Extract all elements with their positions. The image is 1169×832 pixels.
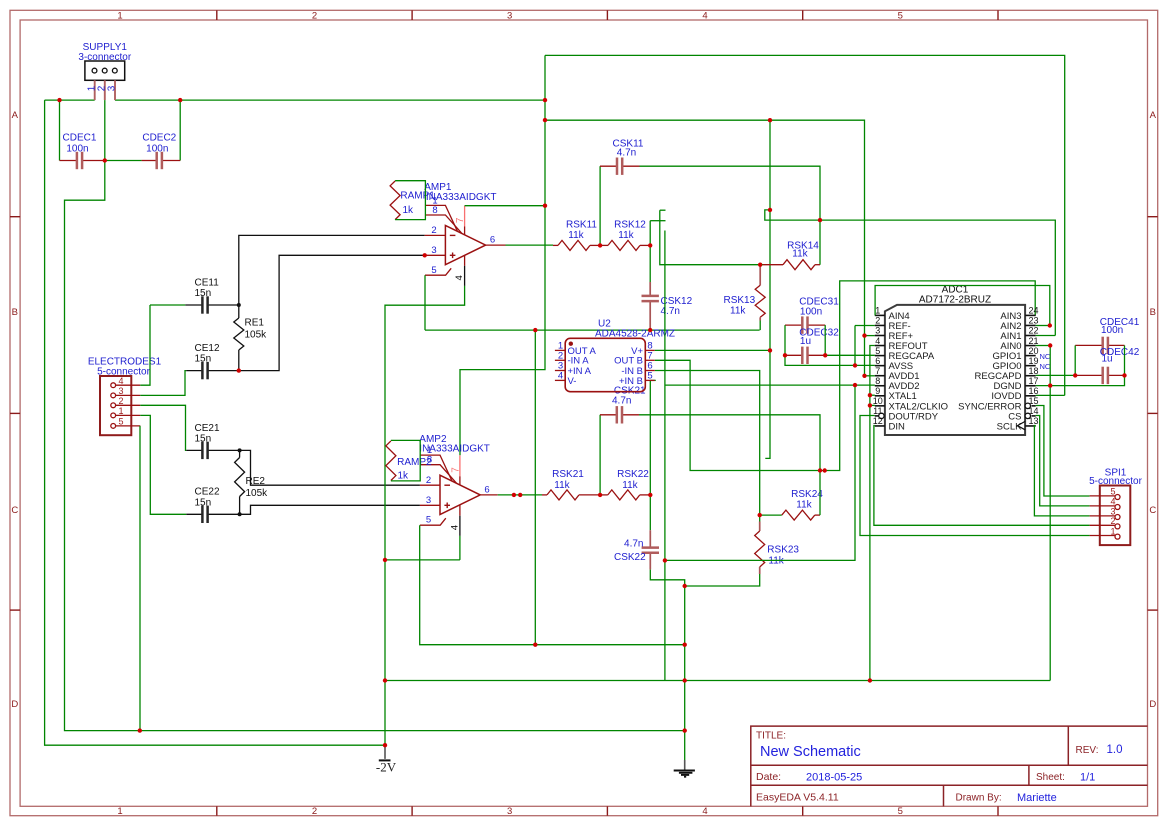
wire RAMP1 loop bbox=[395, 181, 425, 220]
wire AVDD2 col to y560 bbox=[665, 385, 855, 560]
-2V power symbol bbox=[379, 746, 391, 761]
svg-text:2: 2 bbox=[1111, 516, 1116, 526]
svg-text:2018-05-25: 2018-05-25 bbox=[806, 771, 862, 783]
svg-text:4: 4 bbox=[702, 10, 707, 21]
wire CDEC4x right rail bbox=[1124, 345, 1126, 375]
svg-text:Date:: Date: bbox=[756, 771, 781, 783]
ADC1 pin 3 REF+ bbox=[875, 335, 885, 337]
svg-text:B: B bbox=[1150, 307, 1156, 318]
wire AIN2 stub bbox=[1036, 325, 1050, 327]
svg-text:CSK22: CSK22 bbox=[614, 552, 646, 563]
svg-text:EasyEDA V5.4.11: EasyEDA V5.4.11 bbox=[756, 792, 839, 804]
ADC1 pin 13 SCLK bbox=[1025, 425, 1036, 427]
svg-text:7: 7 bbox=[455, 217, 466, 223]
svg-text:17: 17 bbox=[1028, 376, 1038, 386]
wire XTAL2 stub bbox=[870, 404, 875, 406]
capacitor CDEC32 bbox=[785, 354, 802, 356]
wire RAMP2 loop bbox=[391, 440, 420, 481]
wire REGCAPD row bbox=[1036, 374, 1076, 376]
junction CE12/RE1 red bbox=[237, 368, 241, 372]
svg-text:A: A bbox=[1150, 110, 1157, 121]
junction REGCAPD/cap rail bbox=[1073, 373, 1077, 377]
IC ADC1 AD7172-2BRUZ body bbox=[885, 305, 1025, 435]
resistor RSK12 bbox=[600, 244, 608, 246]
svg-text:5-connector: 5-connector bbox=[1089, 476, 1142, 487]
resistor RSK11 bbox=[553, 244, 558, 246]
svg-text:4.7n: 4.7n bbox=[624, 538, 643, 549]
wire U2 pin5 stub bbox=[650, 379, 655, 381]
svg-text:9: 9 bbox=[875, 386, 880, 396]
ground symbol bbox=[674, 760, 695, 777]
junction feedback b bbox=[823, 468, 827, 472]
wire CDEC2 right drop bbox=[179, 100, 181, 160]
svg-text:D: D bbox=[1149, 699, 1156, 710]
svg-text:RSK21: RSK21 bbox=[552, 469, 584, 480]
junction XTAL2 bbox=[868, 403, 872, 407]
svg-text:5: 5 bbox=[431, 265, 436, 276]
resistor RE1 bbox=[238, 305, 240, 318]
svg-text:11k: 11k bbox=[622, 480, 638, 491]
svg-text:RAMP1: RAMP1 bbox=[400, 191, 435, 202]
svg-text:Drawn By:: Drawn By: bbox=[956, 793, 1002, 804]
ADC1 pin 19 GPIO0 bbox=[1025, 365, 1036, 367]
wire AMP1 REF down bbox=[424, 275, 426, 330]
svg-text:11: 11 bbox=[873, 406, 882, 416]
svg-text:23: 23 bbox=[1028, 316, 1038, 326]
wire REF row y330 bbox=[425, 329, 760, 331]
svg-text:RSK13: RSK13 bbox=[724, 295, 756, 306]
junction electrodes pin5 rail/gnd row bbox=[138, 728, 142, 732]
svg-text:NC: NC bbox=[1040, 362, 1051, 371]
wire AIN1 stub bbox=[1036, 335, 1056, 337]
svg-text:ADA4528-2ARMZ: ADA4528-2ARMZ bbox=[595, 328, 675, 339]
wire +supply y100 b bbox=[115, 99, 545, 101]
capacitor CDEC31 bbox=[785, 324, 802, 326]
wire pin5 rail bbox=[139, 426, 141, 731]
ADC1 pin 17 DGND bbox=[1025, 385, 1036, 387]
wire AIN4-AIN2 bbox=[875, 286, 1050, 326]
resistor RE2 bbox=[239, 450, 241, 457]
svg-text:V-: V- bbox=[568, 376, 577, 387]
svg-text:CDEC2: CDEC2 bbox=[142, 132, 176, 143]
wire CDEC4x left rail bbox=[1074, 345, 1076, 375]
capacitor CE21 bbox=[186, 449, 202, 451]
capacitor CDEC1 bbox=[60, 160, 77, 162]
wire DIN to SPI2 bbox=[874, 426, 1090, 526]
ADC1 pin 18 REGCAPD bbox=[1025, 375, 1036, 377]
svg-text:CE12: CE12 bbox=[195, 343, 220, 354]
svg-text:4.7n: 4.7n bbox=[612, 396, 631, 407]
svg-text:CDEC1: CDEC1 bbox=[63, 132, 97, 143]
svg-text:15n: 15n bbox=[195, 288, 212, 299]
svg-text:D: D bbox=[11, 699, 18, 710]
svg-text:11k: 11k bbox=[730, 305, 746, 316]
SPI1 pin 3 bbox=[1090, 515, 1115, 517]
ADC1 pin 14 CS bbox=[1032, 415, 1036, 417]
svg-text:SCLK: SCLK bbox=[997, 421, 1022, 432]
wire AMP2 REF to gnd row bbox=[420, 525, 685, 645]
svg-text:5: 5 bbox=[647, 370, 652, 381]
svg-text:100n: 100n bbox=[66, 143, 88, 154]
junction AIN2 bbox=[1048, 323, 1052, 327]
SPI1 pin 5 bbox=[1090, 495, 1115, 497]
svg-text:1.0: 1.0 bbox=[1107, 744, 1123, 756]
svg-text:15n: 15n bbox=[195, 354, 212, 365]
svg-text:NC: NC bbox=[1040, 352, 1051, 361]
wire REF- row bbox=[855, 325, 875, 327]
wire y586 to RSK23 bbox=[685, 574, 760, 586]
svg-text:11k: 11k bbox=[796, 500, 812, 511]
svg-text:-2V: -2V bbox=[376, 760, 397, 775]
wire AMP2 out bbox=[498, 494, 542, 496]
wire AVDD1 stub bbox=[865, 375, 875, 377]
capacitor CDEC41 bbox=[1075, 344, 1103, 346]
svg-text:10: 10 bbox=[873, 396, 883, 406]
svg-text:3: 3 bbox=[507, 10, 512, 21]
junction y645/gnd column bbox=[683, 643, 687, 647]
wire AVSS stub bbox=[855, 364, 875, 366]
svg-text:3: 3 bbox=[431, 245, 436, 256]
svg-text:18: 18 bbox=[1028, 366, 1038, 376]
op-amp AMP2 INA333AIDGKT bbox=[420, 455, 498, 536]
wire CDEC3x left rail to AVSS bbox=[785, 325, 855, 365]
junction CDEC1/CDEC2/gnd drop bbox=[103, 158, 107, 162]
connector SPI1 bbox=[1100, 486, 1131, 546]
svg-text:C: C bbox=[11, 505, 18, 516]
junction XTAL1 bbox=[868, 393, 872, 397]
resistor RSK22 bbox=[600, 494, 608, 496]
svg-text:New Schematic: New Schematic bbox=[760, 744, 861, 760]
wire gnd rail left bbox=[65, 161, 685, 731]
svg-text:2: 2 bbox=[431, 225, 436, 236]
svg-text:100n: 100n bbox=[1101, 325, 1123, 336]
wire CS to SPI4 bbox=[1036, 416, 1090, 506]
wire RSK14 left green bbox=[760, 264, 763, 266]
svg-text:21: 21 bbox=[1028, 336, 1038, 346]
wire REGCAPA row bbox=[825, 354, 875, 356]
svg-text:1/1: 1/1 bbox=[1080, 771, 1095, 783]
svg-text:1u: 1u bbox=[800, 336, 811, 347]
svg-text:15: 15 bbox=[1028, 396, 1038, 406]
svg-text:7: 7 bbox=[450, 467, 461, 473]
wire CSK12 top green bbox=[649, 245, 651, 282]
wire RSK23 top green bbox=[759, 515, 761, 521]
svg-text:6: 6 bbox=[484, 485, 489, 496]
wire gnd column bbox=[684, 586, 686, 760]
svg-text:4: 4 bbox=[558, 370, 563, 381]
junction y220/CSK11 col bbox=[818, 218, 822, 222]
svg-text:5: 5 bbox=[426, 515, 431, 526]
junction y560/lineC bbox=[663, 558, 667, 562]
ADC1 pin 21 AIN0 bbox=[1025, 345, 1036, 347]
wire DOUT to SPI1 bbox=[860, 416, 1090, 536]
ADC1 pin 7 AVDD1 bbox=[875, 375, 885, 377]
wire U2 V+ row bbox=[655, 349, 770, 351]
svg-text:3: 3 bbox=[107, 85, 118, 91]
svg-text:1: 1 bbox=[117, 10, 122, 21]
junction y645/x535 bbox=[533, 643, 537, 647]
capacitor CSK11 bbox=[600, 165, 617, 167]
svg-text:8: 8 bbox=[432, 205, 437, 216]
svg-text:2: 2 bbox=[312, 10, 317, 21]
svg-text:1k: 1k bbox=[398, 470, 410, 481]
wire CE11 node to AMP1 pin2 bbox=[239, 235, 425, 305]
wire AVDD2 row bbox=[665, 384, 875, 386]
junction RSK21/RSK22/CSK21 bbox=[598, 493, 602, 497]
svg-text:Mariette: Mariette bbox=[1017, 792, 1057, 804]
junction CE22/RE2 black bbox=[238, 512, 242, 516]
border column ticks bbox=[216, 10, 218, 20]
svg-text:14: 14 bbox=[1028, 406, 1038, 416]
ADC1 pin 10 XTAL2/CLKIO bbox=[875, 405, 885, 407]
svg-text:105k: 105k bbox=[246, 488, 269, 499]
svg-text:4: 4 bbox=[1111, 497, 1116, 507]
svg-text:16: 16 bbox=[1028, 386, 1038, 396]
wire AIN0 col down bbox=[1049, 346, 1051, 681]
wire CE12 node to AMP1 pin3 bbox=[239, 255, 425, 370]
ADC1 pin 24 AIN3 bbox=[1025, 314, 1036, 316]
junction AMP1 V+ on rail bbox=[543, 204, 547, 208]
wire REF- to AVSS rail bbox=[854, 326, 856, 366]
wire REF+/AVDD1 col bbox=[864, 336, 866, 376]
junction -2V rail end bbox=[383, 743, 387, 747]
junction CDEC32 left bbox=[783, 353, 787, 357]
svg-text:RE1: RE1 bbox=[245, 318, 265, 329]
svg-text:3: 3 bbox=[119, 386, 124, 396]
wire AMP2 V- drop bbox=[459, 536, 461, 560]
svg-text:RSK24: RSK24 bbox=[791, 489, 823, 500]
junction RSK23/RSK24/-INB bbox=[758, 513, 762, 517]
junction AMP2 out a bbox=[512, 493, 516, 497]
junction AVDD1 bbox=[862, 374, 866, 378]
wire XTAL1 stub bbox=[870, 394, 875, 396]
svg-text:DIN: DIN bbox=[889, 421, 906, 432]
capacitor CSK21 bbox=[600, 414, 617, 416]
svg-text:REV:: REV: bbox=[1076, 745, 1099, 756]
wire pin1 down bbox=[140, 415, 186, 514]
ADC1 pin 2 REF- bbox=[875, 324, 885, 326]
wire -2V left rail bbox=[45, 100, 385, 745]
wire CSK11 right down bbox=[640, 166, 821, 265]
connector ELECTRODES1 bbox=[100, 376, 131, 435]
svg-text:RSK23: RSK23 bbox=[767, 545, 799, 556]
svg-text:CE22: CE22 bbox=[195, 487, 220, 498]
junction x770/U2 V+ row bbox=[768, 348, 772, 352]
wire pin4 up bbox=[140, 305, 150, 385]
wire CE21 node to AMP2 pin2 bbox=[240, 450, 420, 485]
wire CDEC3x right rail bbox=[824, 325, 826, 355]
wire RSK13 bottom green bbox=[759, 321, 761, 331]
svg-text:100n: 100n bbox=[800, 306, 822, 317]
junction RSK12/CSK12 bbox=[648, 243, 652, 247]
ADC1 pin 22 AIN1 bbox=[1025, 335, 1036, 337]
capacitor CE22 bbox=[186, 513, 202, 515]
wire -INB from U2 pin6 bbox=[655, 371, 760, 516]
ADC1 pin 6 AVSS bbox=[875, 365, 885, 367]
svg-text:5: 5 bbox=[898, 806, 903, 817]
resistor RAMP2 bbox=[386, 441, 396, 481]
junction REF+ bbox=[862, 333, 866, 337]
svg-text:3: 3 bbox=[507, 806, 512, 817]
svg-text:4: 4 bbox=[875, 336, 880, 346]
svg-text:3-connector: 3-connector bbox=[78, 52, 131, 63]
svg-text:2: 2 bbox=[875, 316, 880, 326]
junction V+/y120 wire bbox=[543, 118, 547, 122]
ADC1 SCLK clock mark bbox=[1018, 421, 1026, 429]
svg-text:3: 3 bbox=[875, 326, 880, 336]
svg-text:5: 5 bbox=[119, 417, 124, 427]
svg-text:7: 7 bbox=[875, 366, 880, 376]
svg-text:4: 4 bbox=[702, 806, 707, 817]
wire x535 down bbox=[534, 330, 536, 645]
svg-text:3: 3 bbox=[426, 495, 431, 506]
wire cap mid bbox=[105, 160, 142, 162]
wire pin3 up bbox=[140, 371, 186, 396]
wire AMP1 out to RSK11 bbox=[506, 244, 554, 246]
svg-text:2: 2 bbox=[426, 475, 431, 486]
junction RSK22/CSK22/+INB bbox=[648, 493, 652, 497]
wire supply pin2 drop bbox=[104, 100, 106, 160]
svg-text:RSK11: RSK11 bbox=[566, 220, 597, 231]
capacitor CE11 bbox=[185, 304, 202, 306]
junction feedback a bbox=[818, 468, 822, 472]
junction gnd/y730 bbox=[683, 728, 687, 732]
svg-text:RSK22: RSK22 bbox=[617, 469, 649, 480]
svg-text:4.7n: 4.7n bbox=[661, 306, 680, 317]
svg-text:AD7172-2BRUZ: AD7172-2BRUZ bbox=[919, 295, 991, 306]
svg-text:11k: 11k bbox=[554, 480, 570, 491]
svg-text:12: 12 bbox=[873, 416, 883, 426]
wire line C x665 bbox=[664, 231, 666, 681]
svg-text:C: C bbox=[1149, 505, 1156, 516]
junction CDEC32 right bbox=[823, 353, 827, 357]
connector SUPPLY1 bbox=[85, 61, 125, 100]
capacitor CE12 bbox=[186, 370, 202, 372]
ADC1 pin 12 DIN bbox=[875, 425, 885, 427]
wire y680 row bbox=[385, 680, 1050, 682]
title block frame bbox=[751, 726, 1148, 806]
wire CSK21 right down bbox=[639, 415, 820, 471]
junction CE11/RE1 black bbox=[237, 303, 241, 307]
svg-text:100n: 100n bbox=[146, 143, 168, 154]
wire CSK11 left bbox=[599, 166, 601, 245]
SPI1 pin 4 bbox=[1090, 505, 1115, 507]
junction DGND bbox=[1048, 383, 1052, 387]
ADC1 pin 9 XTAL1 bbox=[875, 395, 885, 397]
wire CSK22 top green bbox=[649, 495, 651, 530]
junction x770 jog bbox=[768, 208, 772, 212]
junction y120/x770 bbox=[768, 118, 772, 122]
wire DGND row to cap rail bbox=[1036, 375, 1125, 385]
svg-text:CE11: CE11 bbox=[195, 277, 220, 288]
svg-text:1u: 1u bbox=[1102, 353, 1113, 364]
junction RSK13/RSK14 bbox=[758, 263, 762, 267]
junction y330/CSK12 bbox=[648, 328, 652, 332]
wire y120 REF+ drop bbox=[545, 120, 865, 335]
wire RSK24 left green bbox=[760, 514, 782, 516]
wire stub A tick bbox=[650, 220, 665, 222]
wire CSK21 left bbox=[599, 415, 601, 495]
svg-text:5: 5 bbox=[1111, 487, 1116, 497]
ADC1 pin 15 SYNC/ERROR bbox=[1032, 405, 1036, 407]
junction -2V rail y680 bbox=[383, 678, 387, 682]
junction y330/x535 bbox=[533, 328, 537, 332]
junction supply/CDEC2 bbox=[178, 98, 182, 102]
svg-text:5: 5 bbox=[875, 346, 880, 356]
wire RSK24 right to feedback bbox=[819, 471, 821, 516]
svg-text:15n: 15n bbox=[195, 433, 212, 444]
ADC1 pin 16 IOVDD bbox=[1025, 395, 1036, 397]
junction CSK22/RSK23/gnd col bbox=[683, 584, 687, 588]
wire +supply y100 a bbox=[45, 99, 95, 101]
ADC1 pin 8 AVDD2 bbox=[875, 385, 885, 387]
wire V+ rail x545 to AMP2 pin7 bbox=[460, 55, 545, 455]
svg-text:TITLE:: TITLE: bbox=[756, 731, 786, 742]
junction supply/CDEC1 bbox=[57, 98, 61, 102]
junction RSK11/RSK12/CSK11 bbox=[598, 243, 602, 247]
svg-text:6: 6 bbox=[875, 356, 880, 366]
capacitor CDEC2 bbox=[142, 160, 157, 162]
wire B column to RSK13 top bbox=[660, 210, 760, 265]
svg-text:1: 1 bbox=[1111, 526, 1116, 536]
wire CE22 node to AMP2 pin3 bbox=[240, 505, 420, 514]
svg-text:2: 2 bbox=[312, 806, 317, 817]
op-amp U2 ADA4528-2ARMZ bbox=[565, 338, 645, 391]
wire AMP1 V+ to rail bbox=[465, 205, 545, 207]
junction AMP1 pin3 node bbox=[423, 253, 427, 257]
wire AIN0 stub bbox=[1036, 345, 1051, 347]
ADC1 pin 5 REGCAPA bbox=[875, 355, 885, 357]
ADC1 pin 11 DOUT/RDY bbox=[875, 415, 879, 417]
svg-text:1: 1 bbox=[117, 806, 122, 817]
ADC1 pin 4 REFOUT bbox=[875, 345, 885, 347]
wire top y55 to IOVDD row bbox=[545, 55, 1065, 395]
svg-text:RSK12: RSK12 bbox=[614, 220, 646, 231]
svg-text:11k: 11k bbox=[792, 249, 808, 260]
svg-text:19: 19 bbox=[1028, 356, 1038, 366]
ADC1 pin 1 AIN4 bbox=[875, 314, 885, 316]
junction AVDD2 bbox=[853, 383, 857, 387]
resistor RAMP1 bbox=[390, 181, 400, 220]
wire AMP1 V- to -2V rail bbox=[385, 286, 465, 745]
svg-text:A: A bbox=[12, 110, 19, 121]
svg-text:RE2: RE2 bbox=[246, 476, 266, 487]
wire OUTB to AIN3 bbox=[655, 281, 1035, 471]
svg-text:+IN B: +IN B bbox=[619, 376, 643, 387]
svg-text:1: 1 bbox=[119, 406, 124, 416]
capacitor CDEC42 bbox=[1075, 374, 1103, 376]
svg-text:RAMP2: RAMP2 bbox=[397, 457, 432, 468]
svg-text:5-connector: 5-connector bbox=[97, 367, 150, 378]
svg-text:4: 4 bbox=[450, 525, 461, 530]
svg-text:2: 2 bbox=[119, 396, 124, 406]
svg-text:5: 5 bbox=[898, 10, 903, 21]
svg-text:20: 20 bbox=[1028, 346, 1038, 356]
wire CDEC1 left drop bbox=[59, 100, 61, 160]
junction AVSS/REF- col bbox=[853, 363, 857, 367]
wire REF+ stub bbox=[865, 335, 875, 337]
junction CE21/RE2 black bbox=[238, 448, 242, 452]
ADC1 pin 20 GPIO1 bbox=[1025, 355, 1036, 357]
wire stub B tick bbox=[660, 209, 666, 211]
wire stub A upper bbox=[649, 221, 651, 246]
svg-text:6: 6 bbox=[490, 235, 495, 246]
ADC1 pin 23 AIN2 bbox=[1025, 324, 1036, 326]
wire x770 jog y220 AIN1 bbox=[765, 120, 1056, 335]
junction V- rail/AMP2 bbox=[383, 558, 387, 562]
SPI1 pin 2 bbox=[1090, 524, 1115, 526]
resistor RSK21 bbox=[542, 494, 547, 496]
